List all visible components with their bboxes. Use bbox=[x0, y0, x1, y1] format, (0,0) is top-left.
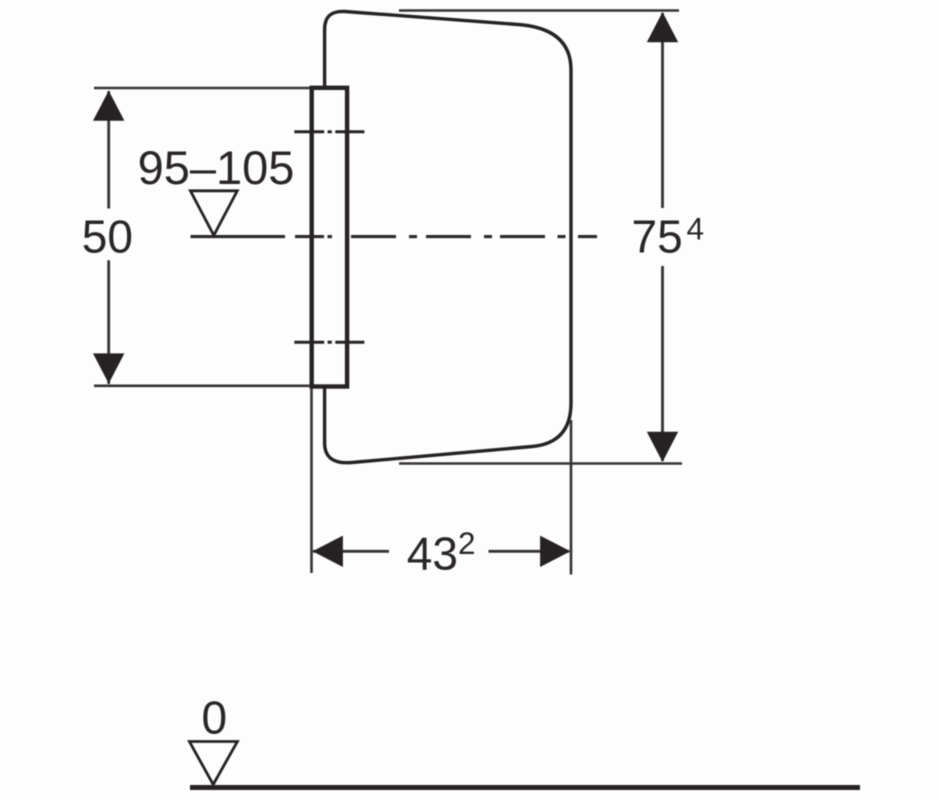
432 dimension arrow left bbox=[313, 536, 343, 567]
dimension extension line bottom (754 bottom reference) bbox=[399, 462, 682, 465]
lower fixing cross mark bbox=[294, 341, 364, 344]
fixture body outline bbox=[325, 11, 571, 462]
svg-text:0: 0 bbox=[202, 691, 228, 743]
mounting rail (wall rail) bbox=[312, 88, 347, 387]
floor level triangle marker bbox=[189, 742, 237, 785]
432 dimension arrow right bbox=[540, 536, 570, 567]
floor line bbox=[190, 785, 860, 790]
horizontal center axis line (dash-dot) bbox=[191, 235, 598, 238]
50 dimension: bottom extension line bbox=[94, 384, 310, 387]
50 dimension line lower segment bbox=[107, 260, 110, 384]
432 dimension: right extension line bbox=[570, 420, 573, 575]
95-105 level triangle marker bbox=[190, 191, 237, 236]
svg-text:43: 43 bbox=[407, 527, 458, 579]
50 dimension arrow down bbox=[93, 353, 124, 383]
svg-text:2: 2 bbox=[458, 525, 476, 561]
50 dimension: top extension line bbox=[94, 87, 310, 90]
svg-text:75: 75 bbox=[632, 211, 683, 263]
432 dimension line right segment bbox=[489, 550, 570, 553]
754 dimension line lower segment bbox=[661, 266, 664, 461]
svg-text:50: 50 bbox=[82, 211, 133, 263]
432 dimension line left segment bbox=[313, 550, 389, 553]
dimension extension line top (754 top reference) bbox=[399, 9, 679, 12]
upper fixing cross mark bbox=[294, 130, 364, 133]
432 dimension: left extension line bbox=[310, 389, 313, 574]
754 dimension arrow up bbox=[647, 12, 678, 42]
50 dimension line upper segment bbox=[107, 91, 110, 209]
754 dimension line upper segment bbox=[661, 13, 664, 208]
50 dimension arrow up bbox=[93, 91, 124, 121]
svg-text:4: 4 bbox=[687, 211, 705, 247]
754 dimension arrow down bbox=[647, 432, 678, 462]
svg-text:95–105: 95–105 bbox=[138, 141, 295, 194]
